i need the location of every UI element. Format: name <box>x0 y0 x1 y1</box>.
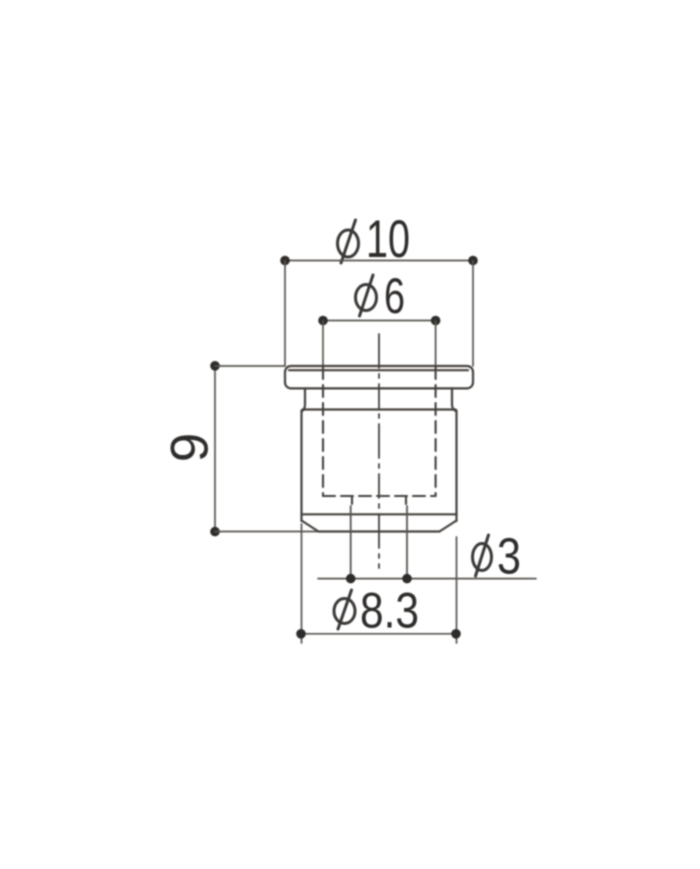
dimension phi8.3 symbol <box>334 590 355 629</box>
part flange outline <box>285 366 473 388</box>
dimension phi6 extension lines <box>323 321 436 367</box>
dimension phi3 line <box>318 578 536 580</box>
dimension phi8.3 extension line left <box>301 524 303 643</box>
part body sides <box>302 411 457 522</box>
dimension phi10 end dots <box>280 256 478 266</box>
hidden line phi6 bore left wall <box>322 367 324 496</box>
dimension phi3 end dots <box>346 574 412 584</box>
dimension phi6 line <box>323 320 436 322</box>
svg-text:9: 9 <box>161 433 220 462</box>
part chamfer edge line <box>302 513 457 515</box>
svg-text:8.3: 8.3 <box>360 583 419 639</box>
dimension 9 extension lines <box>215 366 319 532</box>
part body shoulder line <box>303 408 456 410</box>
centerline (dash-dot) <box>378 334 380 568</box>
part bottom chamfer <box>302 521 457 532</box>
hidden line bore bottom <box>323 495 436 497</box>
dimension phi10 extension lines <box>285 261 473 367</box>
hidden line bore step right <box>405 496 407 509</box>
dimension phi8.3 end dots <box>296 629 461 639</box>
dimension 9 end dots <box>210 361 220 536</box>
dimension phi10 symbol <box>338 220 359 263</box>
dimension phi8.3 extension line right <box>456 537 458 643</box>
dimension phi8.3 line <box>301 633 456 635</box>
part neck below flange <box>302 388 457 411</box>
hidden line phi6 bore right wall <box>435 367 437 496</box>
dimension phi3 symbol <box>473 535 492 576</box>
dimension phi3 hole edge extension lines <box>351 506 407 579</box>
hidden line bore step left <box>351 496 353 509</box>
dimension phi10 line <box>285 260 473 262</box>
dimension 9 line <box>214 366 216 532</box>
dimension phi6 end dots <box>318 316 440 326</box>
dimension phi6 symbol <box>356 275 377 316</box>
svg-text:3: 3 <box>497 528 521 585</box>
svg-text:6: 6 <box>384 268 405 324</box>
